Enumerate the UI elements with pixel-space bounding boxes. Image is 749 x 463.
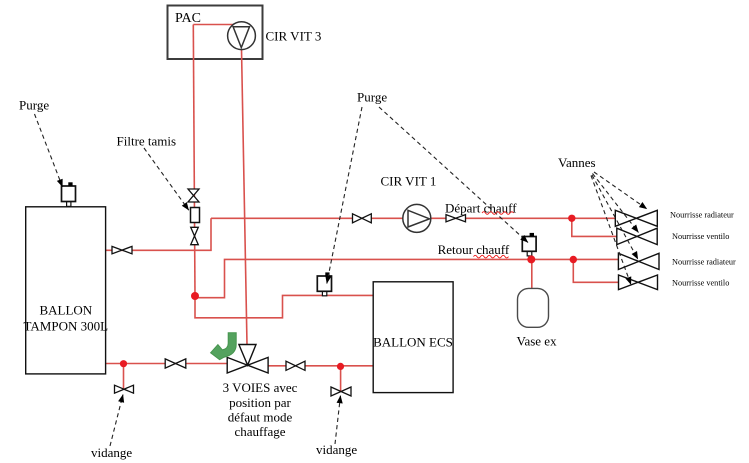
- svg-text:BALLON ECS: BALLON ECS: [373, 335, 453, 350]
- wire: branch from node D4 to valve row 2: [572, 218, 617, 236]
- purge symbol P1 on tank top: [62, 182, 76, 206]
- svg-text:CIR VIT 3: CIR VIT 3: [266, 28, 322, 43]
- wire: depart chauff main line: [211, 217, 616, 219]
- wire: tank bottom outlet to 3-way valve: [106, 363, 228, 365]
- valve V3 after pump CIR VIT 1: [446, 215, 466, 222]
- leader arrow Vannes to valve row 1: [594, 172, 647, 209]
- wire: branch from node D6 to valve row 4: [573, 259, 618, 282]
- junction node D5: [527, 255, 535, 263]
- wire: drop from node D5 to vase ex: [531, 259, 533, 289]
- svg-text:TAMPON 300L: TAMPON 300L: [24, 319, 109, 334]
- svg-text:Nourrisse radiateur: Nourrisse radiateur: [670, 211, 734, 220]
- svg-text:vidange: vidange: [91, 445, 132, 460]
- svg-text:Nourrisse ventilo: Nourrisse ventilo: [672, 279, 729, 288]
- pump CIR VIT 1: [403, 204, 431, 232]
- big valve row 3 nourrice radiateur: [618, 253, 659, 269]
- junction node D6: [570, 256, 577, 263]
- PAC box: [168, 6, 263, 60]
- leader arrow Vannes to valve row 4: [591, 176, 631, 285]
- leader arrow from Purge left to P1: [35, 114, 63, 187]
- wire: 3-way valve to BALLON ECS bottom inlet: [268, 365, 374, 367]
- svg-text:Vase ex: Vase ex: [517, 334, 558, 349]
- junction node D2: [120, 360, 127, 367]
- svg-text:BALLON: BALLON: [39, 303, 92, 318]
- tank BALLON TAMPON 300L: [26, 207, 106, 374]
- svg-text:CIR VIT 1: CIR VIT 1: [381, 173, 437, 188]
- svg-text:Vannes: Vannes: [558, 155, 596, 170]
- wire: tank top outlet to depart riser: [106, 218, 211, 250]
- wire: node D1 to BALLON ECS top inlet: [195, 295, 374, 317]
- wire: PAC return top horizontal: [193, 24, 238, 26]
- junction node D4: [568, 215, 575, 222]
- wire: retour chauff main line: [196, 259, 619, 297]
- wire: PAC return vertical down to node D1: [193, 25, 195, 297]
- label 3 VOIES avec position par defaut mode chauffage: [223, 380, 298, 439]
- svg-text:Retour chauff: Retour chauff: [438, 242, 510, 257]
- squiggle under chauff (depart): [482, 212, 514, 215]
- valve V4 tank bottom outlet: [165, 359, 186, 368]
- vidange valve 1: [115, 385, 134, 393]
- svg-text:chauffage: chauffage: [234, 424, 285, 439]
- valve V1 tank top outlet: [112, 246, 132, 253]
- hourglass valve above filter: [188, 189, 199, 202]
- big valve row 1 nourrice radiateur: [615, 210, 657, 226]
- valve V2 before pump CIR VIT 1: [353, 214, 372, 223]
- svg-text:Purge: Purge: [19, 97, 49, 112]
- junction node D1: [191, 292, 199, 300]
- junction node D3: [337, 363, 344, 370]
- svg-text:défaut mode: défaut mode: [228, 410, 293, 425]
- leader arrow vidange left to valve: [110, 395, 123, 447]
- purge symbol P2 on ECS line: [317, 272, 331, 295]
- wire: drop from node D3 to vidange valve 2: [340, 366, 342, 391]
- leader arrow from Filtre tamis to filter: [144, 148, 189, 210]
- vidange valve 2: [331, 387, 351, 396]
- svg-text:position par: position par: [229, 395, 291, 410]
- wire: pump CIR VIT 3 outlet down to 3-way valve: [242, 49, 248, 345]
- hourglass valve below filter: [191, 227, 199, 244]
- svg-text:vidange: vidange: [316, 442, 357, 457]
- vase ex vessel: [518, 288, 549, 327]
- green default-position arrow: [211, 333, 237, 360]
- svg-text:Nourrisse ventilo: Nourrisse ventilo: [672, 232, 729, 241]
- leader arrow from Purge to P2: [327, 107, 362, 284]
- purge symbol P3 on retour line: [522, 233, 536, 256]
- leader arrow from Purge to P3: [379, 107, 528, 243]
- leader arrow Vannes to valve row 2: [593, 174, 639, 233]
- svg-text:Filtre tamis: Filtre tamis: [117, 134, 177, 149]
- wire: drop from node D2 to vidange valve 1: [123, 364, 125, 389]
- valve V5 right of 3-way: [286, 361, 305, 370]
- svg-text:Purge: Purge: [357, 89, 387, 104]
- big valve row 4 nourrice ventilo: [619, 275, 658, 290]
- label BALLON TAMPON 300L: [24, 303, 109, 334]
- tank BALLON ECS: [373, 282, 453, 393]
- leader arrow vidange right to valve: [335, 396, 341, 445]
- big valve row 2 nourrice ventilo: [617, 228, 657, 244]
- leader arrow Vannes to valve row 3: [592, 175, 638, 259]
- filter tamis body: [191, 208, 200, 223]
- svg-text:PAC: PAC: [175, 11, 201, 26]
- squiggle under chauff (retour): [474, 255, 509, 258]
- pump CIR VIT 3: [228, 22, 256, 50]
- 3-way valve: [227, 345, 268, 374]
- svg-text:3 VOIES avec: 3 VOIES avec: [223, 380, 298, 395]
- svg-text:Nourrisse radiateur: Nourrisse radiateur: [672, 258, 736, 267]
